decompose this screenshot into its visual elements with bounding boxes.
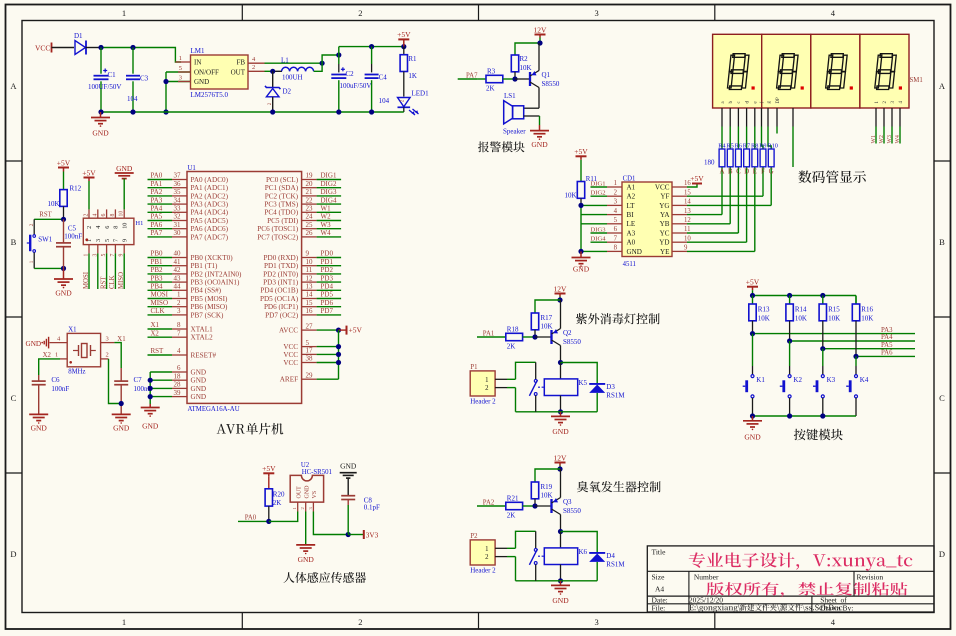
svg-text:OUT: OUT <box>231 69 246 77</box>
power port 3V3 <box>348 534 364 536</box>
svg-text:R2: R2 <box>520 55 529 63</box>
resistor R12 10K <box>60 190 67 207</box>
svg-text:12V: 12V <box>534 25 548 34</box>
resistor R7 <box>744 149 750 167</box>
svg-text:4: 4 <box>95 226 102 229</box>
svg-text:GND: GND <box>31 424 48 433</box>
pin 32 (PA5 (ADC5)) <box>172 220 187 222</box>
svg-text:R20: R20 <box>273 491 285 499</box>
svg-text:PA3: PA3 <box>151 196 163 204</box>
svg-text:X1: X1 <box>68 327 76 334</box>
svg-text:41: 41 <box>174 258 182 266</box>
wire to key K4 <box>855 356 857 366</box>
svg-text:180: 180 <box>704 159 715 167</box>
wire +5V top rail <box>339 46 404 48</box>
svg-text:XTAL2: XTAL2 <box>191 334 214 342</box>
pin 1 <box>495 378 507 380</box>
wire 12V to R17 <box>535 300 560 313</box>
wire speaker to GND <box>524 115 540 117</box>
svg-text:PA4 (ADC4): PA4 (ADC4) <box>191 209 229 217</box>
svg-text:K4: K4 <box>860 376 869 384</box>
svg-text:2K: 2K <box>507 343 516 351</box>
pin 14 (PD5 (OC1A)) <box>302 298 317 300</box>
svg-text:Q3: Q3 <box>563 498 572 506</box>
svg-text:PA2: PA2 <box>151 188 163 196</box>
svg-text:104: 104 <box>127 95 138 103</box>
svg-text:1: 1 <box>122 8 126 18</box>
svg-text:X1: X1 <box>151 321 160 329</box>
svg-text:PD1 (TXD): PD1 (TXD) <box>264 262 299 270</box>
svg-text:+5V: +5V <box>746 278 760 287</box>
svg-text:S8550: S8550 <box>563 507 581 515</box>
svg-text:S8550: S8550 <box>563 338 581 346</box>
svg-text:PC1 (SDA): PC1 (SDA) <box>265 184 299 192</box>
pin 3 <box>166 81 191 83</box>
svg-text:PB3 (OC0AIN1): PB3 (OC0AIN1) <box>191 279 241 287</box>
svg-text:PD3: PD3 <box>321 274 334 282</box>
svg-text:PD7 (OC2): PD7 (OC2) <box>265 311 299 319</box>
net label W3 / wire <box>317 228 342 230</box>
wire L1 to output node <box>314 55 339 71</box>
pin 2 wire <box>101 358 109 360</box>
power port +5V (keys) <box>747 286 758 288</box>
wire P pin1 to switch <box>507 547 516 549</box>
svg-text:DIG1: DIG1 <box>321 172 337 180</box>
svg-text:1: 1 <box>179 55 182 62</box>
resistor R9 <box>760 149 766 167</box>
svg-text:VCC: VCC <box>655 183 670 191</box>
net label PA1 / wire <box>148 187 173 189</box>
H1 pin 6 <box>106 209 108 218</box>
label alarm module <box>478 141 525 152</box>
svg-text:LM1: LM1 <box>191 47 206 55</box>
H1 pin 9 <box>123 245 125 254</box>
svg-text:10K: 10K <box>828 315 840 323</box>
svg-text:2: 2 <box>29 223 35 226</box>
pin 21 (PC2 (TCK)) <box>302 195 317 197</box>
svg-text:MISO: MISO <box>151 299 169 307</box>
wire YD to segment D <box>687 241 747 243</box>
svg-text:37: 37 <box>174 172 182 180</box>
svg-text:YD: YD <box>659 239 669 247</box>
svg-text:GND: GND <box>340 462 357 471</box>
svg-text:PD2: PD2 <box>321 266 334 274</box>
svg-text:PD5: PD5 <box>321 291 334 299</box>
svg-text:PB1: PB1 <box>151 258 164 266</box>
svg-text:MOSI: MOSI <box>83 271 90 289</box>
bottom rail wire <box>101 111 404 113</box>
power port +5V (sensor) <box>263 472 274 474</box>
wire collector to relay <box>560 346 562 363</box>
pin 14 <box>672 204 687 206</box>
svg-text:2025/12/20: 2025/12/20 <box>689 596 723 605</box>
svg-text:VCC: VCC <box>283 359 298 367</box>
svg-text:2K: 2K <box>507 512 516 520</box>
svg-text:PA3: PA3 <box>881 327 893 334</box>
svg-text:6: 6 <box>104 226 111 229</box>
power port +5V <box>398 38 409 40</box>
header H1 (ISP) <box>83 218 134 244</box>
svg-text:C6: C6 <box>51 376 60 384</box>
svg-text:PA6: PA6 <box>881 350 893 357</box>
wire emitter to 12V <box>560 469 562 498</box>
H1 pin 7 <box>114 245 116 254</box>
svg-text:9: 9 <box>306 250 310 258</box>
net label PA6 / wire <box>856 355 915 357</box>
svg-text:DIG3: DIG3 <box>591 227 607 234</box>
svg-text:DIG3: DIG3 <box>321 188 337 196</box>
relay K6 <box>544 548 577 565</box>
svg-text:PA0: PA0 <box>151 172 163 180</box>
svg-text:R7: R7 <box>743 142 750 149</box>
pin 11 (PD2 (INT0)) <box>302 273 317 275</box>
pin 9 (PD0 (RXD)) <box>302 257 317 259</box>
svg-text:R14: R14 <box>795 306 807 314</box>
svg-text:PA2 (ADC2): PA2 (ADC2) <box>191 192 229 200</box>
svg-text:30: 30 <box>174 229 182 237</box>
svg-text:MOSI: MOSI <box>151 291 169 299</box>
svg-text:104: 104 <box>379 97 390 105</box>
svg-text:PB2: PB2 <box>151 266 164 274</box>
resistor R16 10K <box>855 296 857 305</box>
pin 11 <box>672 232 687 234</box>
svg-text:GND: GND <box>304 485 310 499</box>
svg-text:PD7: PD7 <box>321 307 334 315</box>
net label MOSI / wire <box>148 298 173 300</box>
power port +5V (H1) <box>84 177 95 179</box>
pin 6 <box>607 232 622 234</box>
svg-text:PA7: PA7 <box>466 72 478 79</box>
key K1 <box>751 375 754 378</box>
svg-text:GND: GND <box>191 385 207 393</box>
svg-text:3: 3 <box>594 8 598 18</box>
pin 4 / GND port <box>50 342 68 344</box>
svg-text:X2: X2 <box>43 352 52 359</box>
key K4 <box>855 375 858 378</box>
net label PA4 / wire <box>148 211 173 213</box>
svg-text:GND: GND <box>116 164 133 173</box>
svg-text:R15: R15 <box>828 306 840 314</box>
pin 7 (XTAL2) <box>172 336 187 338</box>
junction <box>98 45 103 50</box>
svg-text:2: 2 <box>485 385 489 392</box>
svg-text:LED1: LED1 <box>412 90 430 98</box>
svg-text:GND: GND <box>744 433 761 442</box>
svg-text:LS1: LS1 <box>504 92 516 100</box>
net label DIG4 / wire <box>317 203 342 205</box>
wire collector to relay <box>560 515 562 532</box>
svg-text:2: 2 <box>358 617 362 627</box>
svg-text:13: 13 <box>306 283 314 291</box>
wire P pin1 to switch <box>507 378 516 380</box>
svg-text:4: 4 <box>831 617 836 627</box>
pin 42 (PB2 (INT2AIN0)) <box>172 273 187 275</box>
net label W2 / wire <box>317 220 342 222</box>
svg-text:R9: R9 <box>759 142 766 149</box>
svg-text:38: 38 <box>306 355 314 363</box>
svg-text:10K: 10K <box>758 315 770 323</box>
svg-text:YC: YC <box>660 229 670 237</box>
svg-text:44: 44 <box>174 283 182 291</box>
svg-text:R5: R5 <box>726 142 733 149</box>
svg-text:C: C <box>11 393 17 403</box>
net label CLK / wire <box>148 314 173 316</box>
svg-text:PB6 (MISO): PB6 (MISO) <box>191 303 229 311</box>
pin 2 <box>495 387 507 389</box>
svg-text:10K: 10K <box>541 323 553 331</box>
svg-text:PA5: PA5 <box>881 342 893 349</box>
svg-text:10: 10 <box>684 235 691 242</box>
svg-text:5: 5 <box>179 65 182 72</box>
svg-text:14: 14 <box>684 199 691 206</box>
svg-text:31: 31 <box>174 221 182 229</box>
svg-text:PC0 (SCL): PC0 (SCL) <box>266 176 299 184</box>
transistor Q2 S8550 <box>550 330 552 344</box>
svg-text:5: 5 <box>306 339 310 347</box>
svg-text:A: A <box>719 168 724 176</box>
ground GND (alarm) <box>539 125 541 131</box>
svg-text:RESET#: RESET# <box>191 351 217 359</box>
wire R11 to LT/BI/LE/GND <box>581 204 607 206</box>
svg-text:6: 6 <box>177 364 181 372</box>
wire VCC to D1 <box>52 47 75 49</box>
pin 1 <box>607 186 622 188</box>
pin 4 (RESET#) <box>172 354 187 356</box>
svg-text:PC6 (TOSC1): PC6 (TOSC1) <box>257 225 298 233</box>
net label DIG1 / wire <box>317 179 342 181</box>
pin 4 <box>607 214 622 216</box>
svg-text:C3: C3 <box>140 75 149 83</box>
svg-text:R18: R18 <box>507 326 519 334</box>
svg-text:4: 4 <box>92 214 98 217</box>
svg-text:10: 10 <box>306 258 314 266</box>
resistor R6 <box>736 149 742 167</box>
svg-text:26: 26 <box>306 229 314 237</box>
svg-text:PA7 (ADC7): PA7 (ADC7) <box>191 233 229 241</box>
svg-text:PC3 (TMS): PC3 (TMS) <box>264 201 298 209</box>
svg-text:7: 7 <box>614 235 618 242</box>
svg-text:5: 5 <box>104 239 111 242</box>
svg-text:K1: K1 <box>756 376 765 384</box>
svg-text:AVCC: AVCC <box>279 327 298 335</box>
svg-text:R4: R4 <box>718 142 726 149</box>
H1 pin 3 <box>97 245 99 254</box>
transistor Q1 S8550 <box>529 72 531 86</box>
power port +5V (AVCC) <box>346 326 348 335</box>
svg-text:PD1: PD1 <box>321 258 334 266</box>
resistor R1 1K <box>403 47 405 55</box>
ground GND (MCU) <box>149 404 151 408</box>
net label PB4 / wire <box>148 289 173 291</box>
net label RST / wire <box>148 354 173 356</box>
svg-text:D: D <box>939 549 945 559</box>
svg-text:12: 12 <box>306 274 314 282</box>
svg-text:Q1: Q1 <box>542 71 551 79</box>
bottom rail wire <box>516 580 598 582</box>
svg-text:D: D <box>10 549 16 559</box>
pin 8 <box>607 250 622 252</box>
svg-text:RST: RST <box>151 347 165 355</box>
svg-text:16: 16 <box>306 307 314 315</box>
pin 26 (PC7 (TOSC2)) <box>302 236 317 238</box>
resistor R14 10K <box>789 296 791 305</box>
svg-text:R17: R17 <box>541 314 553 322</box>
net label PA5 / wire <box>823 348 915 350</box>
wire YA to segment A <box>687 214 722 216</box>
svg-text:CD1: CD1 <box>623 175 636 182</box>
wire to key K1 <box>752 334 754 366</box>
svg-text:10K: 10K <box>564 192 576 200</box>
svg-text:W3: W3 <box>887 135 893 143</box>
pin 3 / net X1 <box>101 342 115 344</box>
pin 10 (PD1 (TXD)) <box>302 265 317 267</box>
svg-text:2: 2 <box>485 554 489 561</box>
wire Q1 collector to speaker <box>538 88 540 109</box>
ground GND (UV lamp control) <box>560 412 562 417</box>
pin 20 (PC1 (SDA)) <box>302 187 317 189</box>
net label PA6 / wire <box>148 228 173 230</box>
svg-text:39: 39 <box>174 389 182 397</box>
svg-text:2: 2 <box>300 507 305 509</box>
svg-text:Header 2: Header 2 <box>470 397 496 405</box>
wire to key K2 <box>789 341 791 366</box>
svg-text:GND: GND <box>113 424 130 433</box>
pin 17 (VCC) <box>302 353 317 355</box>
svg-text:R13: R13 <box>758 306 770 314</box>
svg-text:GND: GND <box>552 427 569 436</box>
svg-text:A4: A4 <box>655 585 664 594</box>
svg-text:G: G <box>769 168 774 176</box>
svg-text:YB: YB <box>660 220 670 228</box>
svg-text:10K: 10K <box>795 315 807 323</box>
svg-text:32: 32 <box>174 213 182 221</box>
wire 12V node to R2 <box>515 43 540 55</box>
ground GND (C7) <box>112 413 131 415</box>
power port +5V (pin16) <box>687 184 697 188</box>
wire P pin2 to bottom rail <box>507 387 516 389</box>
resistor R19 10K <box>531 482 538 499</box>
svg-text:10K: 10K <box>541 492 553 500</box>
wire VCC bus <box>338 330 340 379</box>
svg-text:LM2576T5.0: LM2576T5.0 <box>191 91 229 99</box>
net label PD3 / wire <box>317 281 342 283</box>
svg-text:4511: 4511 <box>623 261 636 268</box>
capacitor C8 0.1pF <box>341 495 355 497</box>
svg-text:1: 1 <box>485 546 488 553</box>
svg-text:C5: C5 <box>68 225 77 233</box>
net labels DIG1-DIG4 / wires <box>591 186 608 188</box>
svg-text:GND: GND <box>298 555 315 564</box>
svg-text:FB: FB <box>236 59 245 67</box>
pin 23 (PC4 (TDO)) <box>302 211 317 213</box>
pin 25 (PC6 (TOSC1)) <box>302 228 317 230</box>
svg-text:23: 23 <box>306 205 314 213</box>
wire ON/OFF+GND to bottom rail <box>165 72 167 112</box>
svg-text:VCC: VCC <box>283 343 298 351</box>
svg-text:2K: 2K <box>486 85 495 93</box>
svg-text:VS: VS <box>312 491 318 499</box>
svg-text:PB3: PB3 <box>151 274 164 282</box>
SM1 pin e2 <box>792 108 794 127</box>
svg-text:42: 42 <box>174 266 182 274</box>
net label PB3 / wire <box>148 281 173 283</box>
svg-text:GND: GND <box>191 368 207 376</box>
wire GND bus <box>149 372 151 404</box>
top rail wire <box>753 295 857 297</box>
svg-text:CLK: CLK <box>109 275 116 289</box>
svg-text:10K: 10K <box>47 200 59 208</box>
svg-text:IN: IN <box>194 59 201 67</box>
svg-text:9: 9 <box>684 245 688 252</box>
digit box 2 <box>762 34 811 108</box>
net label DIG3 / wire <box>317 195 342 197</box>
svg-text:100nF: 100nF <box>51 385 69 393</box>
svg-text:RS1M: RS1M <box>606 561 625 569</box>
svg-text:PC2 (TCK): PC2 (TCK) <box>265 192 299 200</box>
svg-text:19: 19 <box>306 172 314 180</box>
svg-text:3V3: 3V3 <box>366 532 379 540</box>
wire 12V to R19 <box>535 469 560 482</box>
svg-text:H1: H1 <box>135 220 143 227</box>
svg-text:8: 8 <box>177 321 181 329</box>
svg-text:33: 33 <box>174 205 182 213</box>
pin 29 (AREF) <box>302 378 317 380</box>
svg-text:1: 1 <box>122 617 126 627</box>
pin 10 <box>672 241 687 243</box>
wire OUT to L1 <box>265 70 273 72</box>
svg-text:+5V: +5V <box>349 326 363 335</box>
svg-text:0.1pF: 0.1pF <box>364 503 380 511</box>
svg-text:PA5 (ADC5): PA5 (ADC5) <box>191 217 229 225</box>
svg-text:PC7 (TOSC2): PC7 (TOSC2) <box>257 233 298 241</box>
wire 12V to Q1 emitter <box>538 43 540 71</box>
svg-text:D4: D4 <box>606 552 615 560</box>
pin 1 <box>175 61 190 63</box>
svg-text:15: 15 <box>306 299 314 307</box>
svg-text:DIG4: DIG4 <box>591 236 607 243</box>
svg-text:PC4 (TDO): PC4 (TDO) <box>264 209 298 217</box>
pin 2 OUT <box>248 70 265 72</box>
net label PA3 / wire <box>148 203 173 205</box>
svg-text:GND: GND <box>194 78 209 86</box>
title block <box>647 546 934 612</box>
resistor R2 10K <box>511 55 518 72</box>
power port 12V (alarm) <box>535 34 546 36</box>
svg-text:PD6 (ICP1): PD6 (ICP1) <box>264 303 299 311</box>
svg-text:PA1 (ADC1): PA1 (ADC1) <box>191 184 229 192</box>
svg-text:R10: R10 <box>767 142 778 149</box>
svg-text:DIG2: DIG2 <box>591 190 606 197</box>
wire FB to output node <box>265 62 323 64</box>
diode D3 RS1M <box>561 363 598 384</box>
net label PD6 / wire <box>317 306 342 308</box>
svg-text:PA0 (ADC0): PA0 (ADC0) <box>191 176 229 184</box>
label ozone generator control <box>577 481 661 492</box>
ground GND (U2) <box>305 512 307 545</box>
svg-text:L1: L1 <box>281 57 289 65</box>
svg-text:3: 3 <box>106 336 109 343</box>
pin 34 (PA3 (ADC3)) <box>172 203 187 205</box>
resistor R20 2K <box>265 489 272 506</box>
net label PD7 / wire <box>317 314 342 316</box>
svg-text:BI: BI <box>627 211 635 219</box>
svg-text:PB4: PB4 <box>151 283 164 291</box>
resistor R18 2K <box>506 333 523 340</box>
svg-text:PD4 (OC1B): PD4 (OC1B) <box>260 287 298 295</box>
svg-text:LE: LE <box>627 220 636 228</box>
svg-text:R8: R8 <box>751 142 758 149</box>
power port 12V (ozone generator control) <box>555 462 566 464</box>
